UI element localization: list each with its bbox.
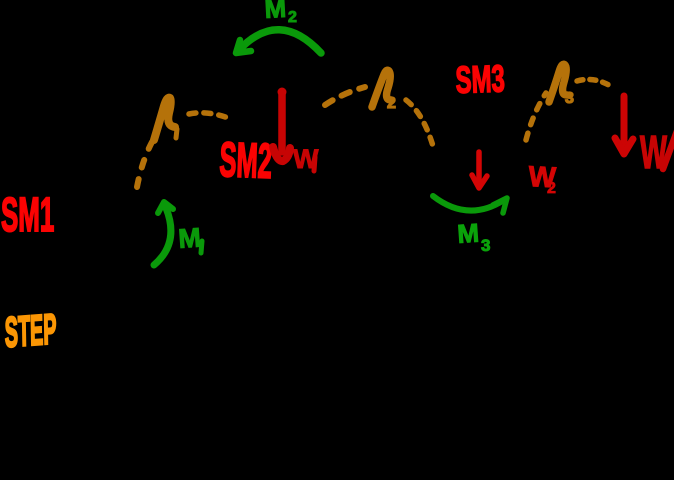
dashed curve l2 left branch	[325, 87, 365, 105]
svg-text:SM1: SM1	[1, 189, 54, 243]
svg-text:STEP: STEP	[4, 306, 56, 357]
label W2	[528, 161, 558, 197]
svg-text:3: 3	[481, 236, 490, 255]
arrow W2 (red down arrow)	[472, 152, 487, 188]
arc arrow M3	[433, 196, 507, 213]
svg-text:2: 2	[387, 95, 396, 112]
dashed curve l2 right branch	[406, 100, 433, 146]
dashed curve l3 right branch	[577, 79, 612, 87]
arrow W1 (red down arrow)	[273, 88, 290, 162]
svg-text:M: M	[177, 222, 202, 253]
svg-text:2: 2	[288, 9, 297, 26]
svg-text:2: 2	[547, 180, 556, 197]
label SM2	[219, 133, 273, 189]
label W with slash	[640, 127, 674, 179]
dashed curve l3 left branch	[526, 93, 546, 140]
dashed curve l1 left branch	[137, 142, 152, 187]
arc arrow M2	[236, 30, 321, 53]
label SM1	[1, 189, 54, 243]
dashed curve l1 right branch	[189, 113, 231, 119]
label M1	[177, 222, 202, 253]
label M2	[264, 0, 297, 26]
label SM3	[455, 57, 506, 102]
glyph l1	[154, 98, 175, 140]
svg-text:M: M	[264, 0, 287, 24]
svg-text:SM3: SM3	[455, 57, 506, 102]
svg-text:SM2: SM2	[219, 133, 273, 189]
svg-text:3: 3	[565, 90, 574, 107]
svg-text:M: M	[456, 218, 480, 249]
subscript 1 of l1	[176, 129, 177, 138]
glyph l3	[549, 64, 567, 102]
arrow M1	[154, 202, 173, 265]
label M3	[456, 218, 490, 255]
arrow W (far right red down arrow)	[615, 96, 633, 154]
label W1	[293, 144, 319, 174]
glyph l2	[372, 70, 391, 107]
label STEP	[4, 306, 56, 357]
